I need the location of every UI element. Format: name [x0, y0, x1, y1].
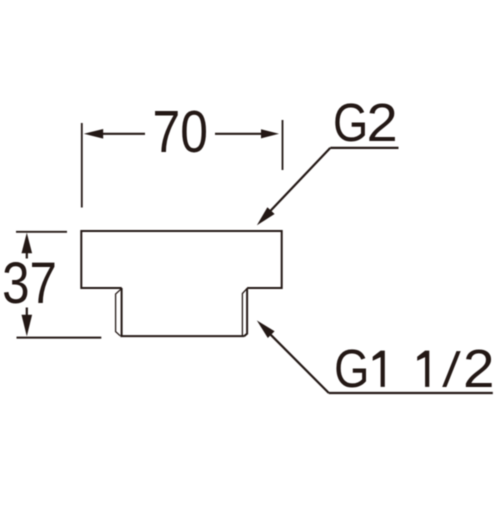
wire: G1 1/2 leader diagonal — [261, 325, 329, 393]
label: G2 callout letter G — [333, 92, 368, 153]
node E: G2 leader arrowhead — [257, 207, 275, 225]
svg-text:G: G — [333, 92, 368, 153]
node C: up arrowhead of 37 dimension — [22, 233, 33, 253]
node A: left arrowhead of 70 dimension — [84, 129, 103, 139]
wire: 37 dimension line lower segment — [26, 308, 28, 317]
label: 70 dimension text — [153, 99, 208, 165]
wire: 70 dimension line right segment — [215, 133, 263, 135]
wire: G2 leader diagonal — [262, 148, 331, 220]
svg-text:2: 2 — [367, 92, 398, 153]
label: G1 1/2 callout fraction slash — [442, 351, 461, 387]
part outline: top flange rectangle with step shoulders — [81, 231, 281, 288]
wire: left extension line of 70 dimension — [81, 123, 83, 208]
wire: top extension line of 37 dimension — [16, 231, 67, 233]
label: G1 1/2 callout first digit 1 — [373, 351, 385, 387]
node B: right arrowhead of 70 dimension — [261, 129, 279, 138]
wire: bottom edge of threaded spigot — [120, 335, 244, 337]
wire: 37 dimension line upper segment — [26, 252, 28, 259]
label: G1 1/2 callout digit 2 — [463, 338, 495, 398]
node F: G1 1/2 leader arrowhead — [257, 320, 275, 338]
svg-text:37: 37 — [2, 251, 57, 316]
wire: bottom extension line of 37 dimension — [17, 337, 102, 339]
wire: G1 1/2 leader underline — [329, 392, 493, 394]
label: G1 1/2 callout second digit 1 — [417, 351, 429, 387]
node D: down arrowhead of 37 dimension — [22, 315, 33, 337]
svg-text:2: 2 — [463, 338, 495, 398]
wire: 70 dimension line left segment — [101, 133, 145, 135]
svg-text:70: 70 — [153, 99, 208, 165]
label: G2 callout digit 2 — [367, 92, 398, 153]
label: G1 1/2 callout letter G — [334, 338, 369, 399]
wire: left inner thread line — [121, 288, 123, 336]
wire: right inner thread root line with top chamfer — [242, 289, 246, 336]
label: 37 dimension text — [2, 251, 57, 316]
svg-text:G: G — [334, 338, 369, 399]
wire: G2 leader underline — [330, 147, 398, 149]
wire: right outer thread line with bottom chamfer — [244, 288, 247, 336]
wire: right extension line of 70 dimension — [282, 120, 284, 170]
wire: left outer thread crest line with end chamfers — [116, 289, 121, 336]
